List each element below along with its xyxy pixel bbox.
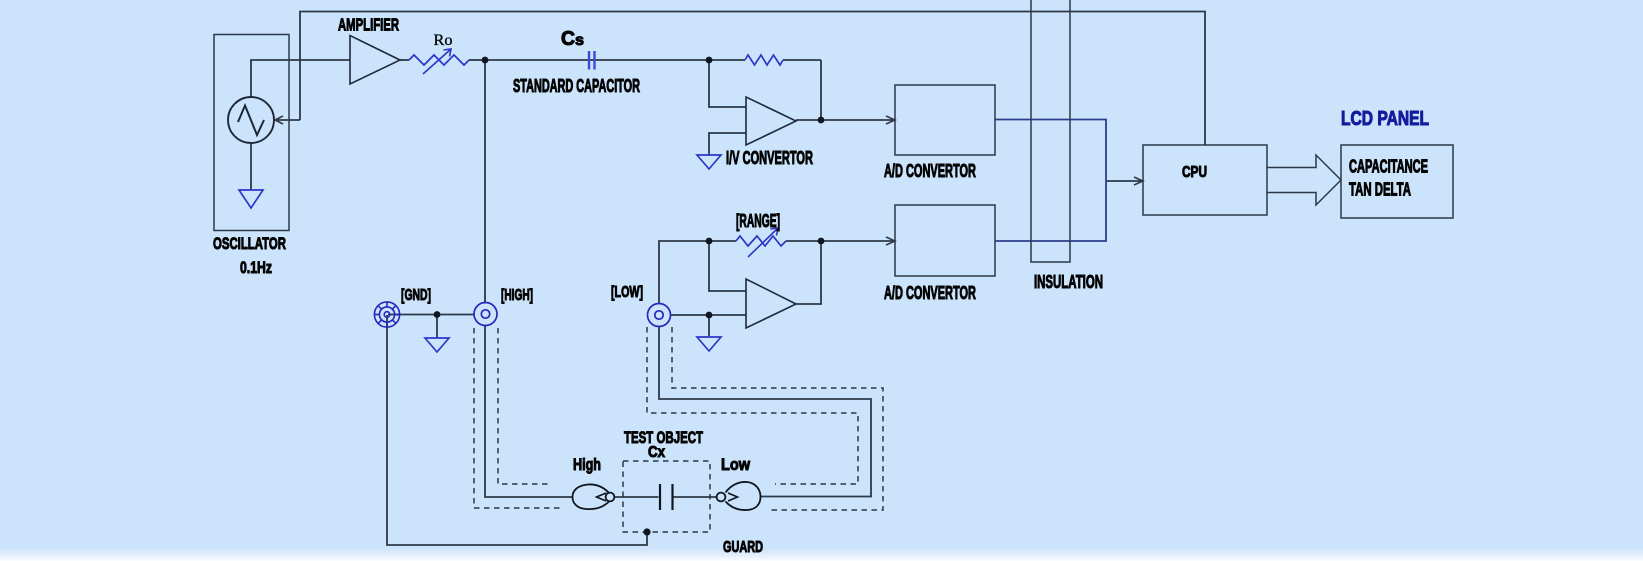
insulation bus blue wires from A/D convertors to CPU (995, 120, 1106, 242)
arrowhead into CPU (1134, 177, 1143, 185)
node C junction dot on range line (706, 238, 713, 245)
wire: amplifier output to Ro (400, 59, 409, 61)
arrowhead into oscillator (275, 116, 283, 124)
resistor RANGE (variable, blue) (736, 236, 786, 246)
LCD panel box (1341, 145, 1453, 218)
svg-text:s: s (575, 32, 584, 49)
wire: gnd junction down to ground symbol (436, 315, 438, 339)
insulation barrier (1031, 0, 1070, 262)
test object dashed box (623, 461, 710, 532)
CPU box (1143, 145, 1267, 215)
arrowhead into A/D convertor 2 (886, 237, 895, 245)
wire: range resistor leads (709, 240, 736, 242)
wire: high connector to Cx capacitor (615, 496, 659, 498)
capacitor Cs plates (588, 51, 590, 70)
wire: LOW terminal up to range line corner (659, 241, 709, 304)
terminal LOW (648, 304, 671, 327)
svg-text:0.1Hz: 0.1Hz (240, 259, 272, 277)
svg-text:CPU: CPU (1182, 164, 1207, 181)
node A junction dot (482, 57, 489, 64)
svg-text:Cx: Cx (648, 444, 665, 461)
A/D convertor 1 box (895, 85, 995, 155)
junction dot at U2 non-inverting input (706, 312, 713, 319)
svg-text:A/D CONVERTOR: A/D CONVERTOR (884, 161, 976, 181)
junction dot range/output (818, 238, 825, 245)
high lead connector clip (573, 484, 610, 509)
wire: op-amp U1 non-inverting input to ground (709, 133, 746, 155)
wire: feedback right side down to op-amp output (820, 60, 822, 120)
wire: LOW terminal to op-amp U2 non-inverting input (671, 314, 747, 316)
svg-text:LCD PANEL: LCD PANEL (1341, 108, 1429, 130)
svg-text:CAPACITANCE: CAPACITANCE (1349, 157, 1428, 177)
output node dot of U1 (818, 117, 825, 124)
wire: LOW terminal down low lead to test object (659, 326, 871, 497)
ground at U1 non-inverting input (697, 155, 721, 169)
junction dot on guard (643, 528, 650, 535)
op-amp amplifier A1 (350, 36, 400, 85)
terminal HIGH (474, 303, 497, 326)
wire: guard lead from GND terminal to test object (387, 315, 647, 545)
svg-text:A/D CONVERTOR: A/D CONVERTOR (884, 283, 976, 303)
ground symbol at gnd junction (425, 338, 449, 352)
svg-text:AMPLIFIER: AMPLIFIER (338, 15, 399, 35)
dashed shield of high lead (474, 328, 561, 508)
terminal GND (374, 302, 399, 327)
svg-text:[RANGE]: [RANGE] (736, 211, 780, 231)
ground under oscillator (239, 190, 263, 208)
low lead connector clip (726, 482, 761, 510)
wire: op-amp U1 output to A/D convertor 1 (796, 119, 893, 121)
wire: node B down to op-amp U1 inverting input (709, 60, 746, 107)
svg-text:High: High (573, 455, 601, 474)
wire: low node junction to ground symbol (708, 315, 710, 337)
node B junction dot (706, 57, 713, 64)
sine source V1 (228, 97, 274, 143)
wire: oscillator output up and to amplifier input (251, 60, 350, 97)
A/D convertor 2 box (895, 205, 995, 276)
svg-text:TAN DELTA: TAN DELTA (1349, 180, 1411, 200)
wire: range line to A/D convertor 2 (821, 240, 893, 242)
svg-text:Low: Low (721, 455, 751, 474)
svg-text:[HIGH]: [HIGH] (501, 287, 533, 304)
feedback resistor of I/V convertor (745, 55, 783, 65)
wire: GND terminal to HIGH terminal (388, 314, 474, 316)
wire: oscillator bottom to ground (250, 143, 252, 190)
arrowhead into A/D convertor 1 (886, 116, 895, 124)
svg-text:OSCILLATOR: OSCILLATOR (213, 235, 286, 253)
block arrow CPU to LCD panel (1267, 155, 1341, 205)
op-amp U1 I/V convertor (746, 97, 796, 145)
wire: HIGH terminal down to high lead (485, 325, 572, 497)
wire: node A down to HIGH terminal (484, 60, 486, 303)
wire: op-amp U2 output up to range line (796, 241, 821, 304)
svg-text:[LOW]: [LOW] (611, 284, 643, 301)
op-amp U2 (746, 279, 796, 328)
svg-text:GUARD: GUARD (723, 539, 763, 556)
resistor Ro (variable, blue) (409, 55, 469, 65)
ground at U2 non-inverting input (697, 337, 721, 351)
svg-text:[GND]: [GND] (401, 287, 431, 304)
wire: Ro to node A junction (469, 59, 485, 61)
svg-text:Ro: Ro (434, 32, 453, 49)
svg-text:C: C (561, 28, 575, 50)
wire: node B feedback leads around resistor (709, 59, 745, 61)
wire: Cx capacitor to low connector (674, 496, 717, 498)
junction dot gnd line (434, 311, 441, 318)
wire: arrow line into oscillator right side (277, 119, 300, 121)
wire: node A to node B through Cs (485, 59, 709, 61)
Ro arrow (423, 49, 451, 74)
capacitor Cx plates (659, 484, 661, 510)
wire: node C down to op-amp U2 inverting input (709, 241, 746, 291)
wire: CPU input arrow line from insulation bus (1106, 180, 1141, 182)
svg-text:I/V CONVERTOR: I/V CONVERTOR (726, 148, 813, 168)
wire: top feedback line from oscillator area to CPU (300, 12, 1205, 146)
svg-text:INSULATION: INSULATION (1034, 272, 1103, 292)
svg-text:STANDARD CAPACITOR: STANDARD CAPACITOR (513, 76, 640, 96)
dashed shield of low lead (647, 327, 883, 510)
oscillator box (214, 35, 289, 231)
